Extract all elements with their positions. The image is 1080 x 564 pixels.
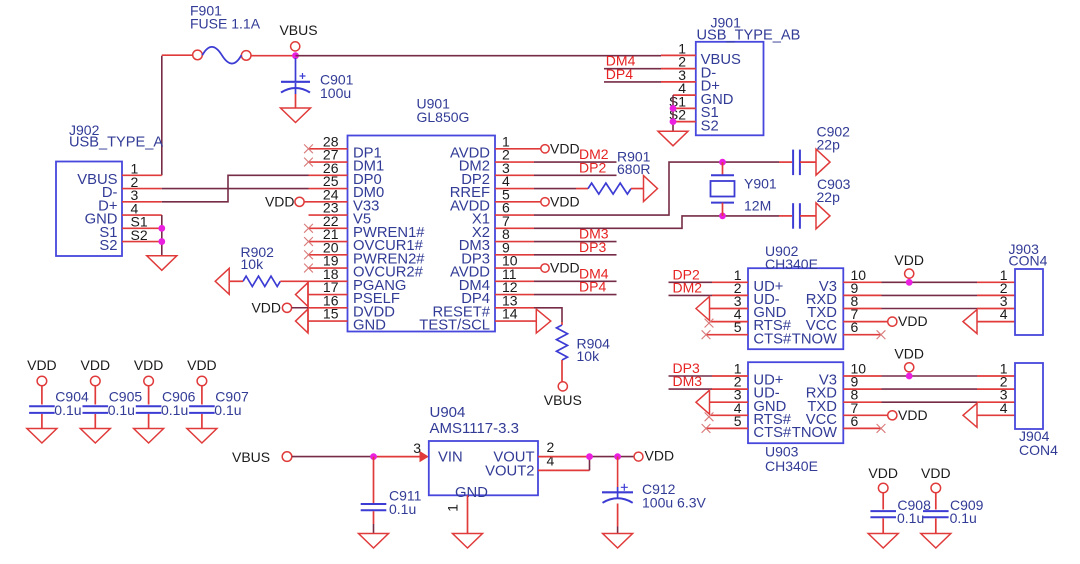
- svg-text:0.1u: 0.1u: [389, 501, 416, 517]
- fuse F901 right lead: [251, 55, 293, 57]
- svg-text:DP2: DP2: [579, 159, 606, 175]
- no-connect X on U902 pin 5: [702, 330, 711, 339]
- wire U904 VOUT stub: [538, 456, 590, 458]
- svg-text:VDD: VDD: [550, 260, 580, 276]
- svg-text:DM3: DM3: [673, 373, 703, 389]
- ground below C907: [187, 429, 217, 444]
- svg-text:TNOW: TNOW: [792, 331, 837, 347]
- wire RREF to R901: [534, 188, 576, 190]
- U903 pin 3 (GND) stub: [710, 401, 749, 403]
- wire VDD to pin16 bus: [292, 307, 309, 309]
- svg-text:15: 15: [323, 306, 339, 322]
- resistor R902: [243, 276, 280, 286]
- power port VDD at U903 pin 7 (VCC): [888, 411, 897, 420]
- wire net DM3 to U903 pin 2: [669, 388, 713, 390]
- no-connect X on U901 pin 27: [304, 158, 313, 167]
- J902 pin 3 (D+) stub: [122, 201, 162, 203]
- C905 top lead: [94, 386, 96, 405]
- ground arrow at J904 pin 4: [963, 403, 977, 427]
- svg-text:CTS#: CTS#: [753, 331, 792, 347]
- C907 top lead: [201, 386, 203, 405]
- no-connect X on U902 pin 4: [705, 319, 714, 328]
- J904 pin 2 stub: [977, 388, 1015, 390]
- wire net DM2 to U902 pin 2: [669, 294, 713, 296]
- J901 pin 2 (D-) stub: [661, 68, 696, 70]
- connector J902 box: [56, 162, 122, 257]
- svg-text:VBUS: VBUS: [232, 449, 270, 465]
- svg-text:VIN: VIN: [438, 450, 463, 466]
- wire net DM4 to J901 pin 2: [604, 68, 661, 70]
- U903 pin 10 (V3) stub: [843, 375, 881, 377]
- crystal Y901 bottom lead: [722, 203, 724, 216]
- ground below J901: [658, 131, 688, 146]
- U903 pin 9 (RXD) stub: [843, 388, 881, 390]
- wire vertical bus at U901 pins 18-15: [307, 281, 309, 331]
- svg-text:DP4: DP4: [606, 66, 633, 82]
- svg-text:VDD: VDD: [898, 313, 928, 329]
- svg-text:GND: GND: [455, 485, 488, 501]
- svg-text:4: 4: [547, 452, 555, 468]
- svg-text:CH340E: CH340E: [765, 256, 818, 272]
- power port VDD at U901 pin 5 (AVDD): [541, 198, 549, 206]
- ground below C911: [359, 534, 389, 549]
- capacitor C901 top lead: [295, 58, 297, 82]
- svg-text:VBUS: VBUS: [544, 392, 582, 408]
- wire U902 pin 10 to J903 pin 1: [882, 281, 978, 283]
- no-connect X on U901 pin 28: [304, 144, 313, 153]
- svg-text:22p: 22p: [817, 189, 841, 205]
- J903 pin 4 stub: [977, 321, 1015, 323]
- svg-text:VDD: VDD: [27, 357, 57, 373]
- svg-text:CON4: CON4: [1019, 442, 1058, 458]
- ground below C901: [281, 108, 311, 123]
- svg-text:VOUT2: VOUT2: [485, 464, 534, 480]
- wire C911 tap to U904 VIN: [374, 456, 420, 458]
- svg-text:VBUS: VBUS: [279, 22, 317, 38]
- power port VDD above C906: [144, 376, 154, 386]
- resistor R901: [588, 183, 631, 194]
- capacitor C912 top lead: [617, 457, 619, 487]
- capacitor C901 (polarized): [281, 73, 310, 94]
- U902 pin 7 (VCC) stub: [843, 321, 887, 323]
- svg-text:14: 14: [502, 306, 518, 322]
- junction VDD on U903 pin 10 wire: [906, 373, 913, 380]
- ground below U904: [453, 534, 483, 549]
- U902 pin 6 (TNOW) stub: [843, 334, 881, 336]
- R904 top lead: [561, 322, 563, 325]
- svg-text:12M: 12M: [744, 198, 771, 214]
- R901 right lead: [631, 188, 644, 190]
- wire U903 pin 8 to J904 pin 3: [882, 401, 978, 403]
- junction J902 S1: [158, 225, 165, 232]
- svg-text:CON4: CON4: [1009, 252, 1048, 268]
- svg-text:0.1u: 0.1u: [950, 510, 977, 526]
- power port VDD at U902 pin 7 (VCC): [888, 317, 897, 326]
- J901 pin S1 (S1) stub: [673, 107, 696, 109]
- svg-text:3: 3: [413, 440, 421, 456]
- C908 top lead: [882, 493, 884, 510]
- capacitor C911: [361, 504, 387, 510]
- U901 pin 12 (DP4) stub: [495, 294, 534, 296]
- U902 pin 1 (UD+) stub: [712, 281, 748, 283]
- J902 pin 1 (VBUS) stub: [122, 174, 162, 176]
- ground below C905: [80, 429, 110, 444]
- no-connect X on U903 pin 4: [705, 412, 714, 421]
- U901 pin 22 (PWREN1#) stub: [309, 227, 348, 229]
- U902 pin 8 (TXD) stub: [843, 308, 881, 310]
- C906 top lead: [148, 386, 150, 405]
- U903 pin 4 (RTS#) stub: [710, 414, 748, 416]
- wire RESET# to R904: [534, 308, 562, 322]
- U903 pin 7 (VCC) stub: [843, 414, 887, 416]
- ground arrow at U903 pin 3 (GND): [696, 390, 710, 414]
- J901 pin 4 (GND) stub: [673, 94, 696, 96]
- svg-text:10k: 10k: [577, 348, 601, 364]
- junction C911 tap: [370, 453, 377, 460]
- U901 pin 25 (DM0) stub: [309, 188, 348, 190]
- svg-text:TEST/SCL: TEST/SCL: [419, 318, 490, 334]
- U902 pin 3 (GND) stub: [710, 308, 749, 310]
- U901 pin 14 (TEST/SCL) stub: [495, 320, 536, 322]
- wire J901 GND/S1/S2 down: [672, 95, 674, 131]
- R902 right lead: [280, 280, 308, 282]
- wire X2 from U901 pin 7 to crystal: [534, 216, 779, 228]
- U901 pin 19 (OVCUR2#) stub: [309, 267, 348, 269]
- svg-text:0.1u: 0.1u: [161, 402, 188, 418]
- C904 top lead: [41, 386, 43, 405]
- power port VDD above U902 pin 10: [905, 269, 914, 278]
- U903 pin 5 (CTS#) stub: [706, 427, 748, 429]
- ground below C908: [868, 534, 898, 549]
- U901 pin 9 (DP3) stub: [495, 254, 534, 256]
- U903 pin 6 (TNOW) stub: [843, 427, 881, 429]
- C902 right lead: [800, 161, 816, 163]
- J903 pin 1 stub: [977, 281, 1015, 283]
- IC U903 box: [748, 362, 843, 443]
- J901 pin 1 (VBUS) stub: [661, 54, 696, 56]
- svg-text:6: 6: [851, 413, 859, 429]
- J903 pin 3 stub: [977, 308, 1015, 310]
- C903 right lead: [800, 215, 816, 217]
- R901 left lead: [576, 188, 588, 190]
- power port VBUS below R904: [558, 382, 567, 391]
- U901 pin 7 (X2) stub: [495, 227, 534, 229]
- wire X1 from U901 pin 6 to crystal: [534, 162, 779, 215]
- capacitor C902: [793, 150, 800, 176]
- ground arrow left of R902: [215, 268, 229, 294]
- svg-text:S2: S2: [99, 238, 117, 254]
- connector J904 box: [1015, 363, 1043, 429]
- svg-text:680R: 680R: [617, 161, 650, 177]
- U901 pin 4 (RREF) stub: [495, 188, 534, 190]
- svg-text:1: 1: [445, 504, 461, 512]
- svg-text:5: 5: [734, 413, 742, 429]
- svg-text:0.1u: 0.1u: [54, 402, 81, 418]
- IC U904 box: [429, 441, 538, 495]
- U902 pin 10 (V3) stub: [843, 281, 881, 283]
- svg-text:4: 4: [1000, 400, 1008, 416]
- power port VDD above U903 pin 10: [905, 363, 914, 372]
- wire net DP3 at U901: [534, 254, 617, 256]
- power port VDD above C904: [37, 376, 47, 386]
- wire net DP3 to U903 pin 1: [669, 375, 713, 377]
- svg-text:GL850G: GL850G: [417, 109, 470, 125]
- svg-text:CH340E: CH340E: [765, 458, 818, 474]
- IC U902 box: [748, 268, 843, 349]
- U903 pin 8 (TXD) stub: [843, 401, 881, 403]
- svg-text:100u 6.3V: 100u 6.3V: [642, 494, 706, 510]
- J901 pin S2 (S2) stub: [673, 121, 696, 123]
- svg-text:Y901: Y901: [744, 175, 777, 191]
- wire VBUS to C911 tap: [292, 456, 374, 458]
- wire net DP2 at U901: [534, 174, 617, 176]
- U901 pin 2 (DM2) stub: [495, 161, 534, 163]
- no-connect X on U903 pin 6: [877, 424, 886, 433]
- svg-text:VDD: VDD: [265, 193, 295, 209]
- svg-text:VDD: VDD: [251, 299, 281, 315]
- svg-text:FUSE 1.1A: FUSE 1.1A: [190, 16, 261, 32]
- U901 pin 11 (DM4) stub: [495, 280, 534, 282]
- svg-text:USB_TYPE_AB: USB_TYPE_AB: [697, 27, 801, 43]
- svg-text:VDD: VDD: [187, 357, 217, 373]
- junction X2 at crystal bottom: [719, 213, 726, 220]
- wire net DP2 to U902 pin 1: [669, 281, 713, 283]
- ground arrow at J903 pin 4: [963, 310, 977, 334]
- R904 bottom lead: [561, 360, 563, 382]
- svg-text:VDD: VDD: [894, 252, 924, 268]
- junction VOUT/VOUT2: [586, 453, 593, 460]
- junction J902 S2: [158, 238, 165, 245]
- U903 pin 1 (UD+) stub: [712, 375, 748, 377]
- wire VOUT to VDD port: [590, 456, 634, 458]
- capacitor C907: [189, 406, 215, 413]
- ground arrow right of C903: [816, 203, 830, 229]
- resistor R904: [557, 325, 568, 360]
- J902 pin 2 (D-) stub: [122, 188, 162, 190]
- C907 bottom lead: [201, 414, 203, 429]
- svg-text:VDD: VDD: [894, 346, 924, 362]
- wire VBUS rail to J901 pin 1: [296, 55, 662, 57]
- junction C912 tap: [614, 453, 621, 460]
- svg-text:VDD: VDD: [81, 357, 111, 373]
- svg-text:DM2: DM2: [673, 280, 703, 296]
- J904 pin 4 stub: [977, 414, 1015, 416]
- U904 GND pin 1 lead: [467, 495, 469, 533]
- svg-text:U904: U904: [430, 404, 466, 421]
- svg-text:VDD: VDD: [134, 357, 164, 373]
- connector J903 box: [1015, 269, 1043, 335]
- fuse F901: [193, 47, 251, 64]
- C909 bottom lead: [935, 518, 937, 533]
- J901 pin 3 (D+) stub: [661, 81, 696, 83]
- svg-text:S2: S2: [131, 227, 148, 243]
- power port VDD above C909: [931, 483, 941, 493]
- svg-text:VDD: VDD: [550, 193, 580, 209]
- C911 ground wire tail: [373, 524, 375, 534]
- wire net DP4 to J901 pin 3: [604, 81, 661, 83]
- U901 pin 16 (DVDD) stub: [308, 307, 348, 309]
- capacitor C912 (polarized): [602, 484, 633, 503]
- fuse F901 left lead: [162, 54, 193, 56]
- wire J902 D+ to U901 DP0 (jog): [162, 175, 309, 202]
- svg-text:GND: GND: [353, 318, 386, 334]
- svg-text:DP4: DP4: [579, 279, 606, 295]
- U901 pin 6 (X1) stub: [495, 214, 534, 216]
- wire net DM4 at U901: [534, 280, 617, 282]
- junction X1 at crystal top: [719, 159, 726, 166]
- no-connect X on U903 pin 5: [702, 424, 711, 433]
- C905 bottom lead: [94, 414, 96, 429]
- capacitor C903: [793, 203, 800, 229]
- ground below C904: [27, 429, 57, 444]
- wire U903 pin 9 to J904 pin 2: [882, 388, 978, 390]
- C909 top lead: [935, 493, 937, 510]
- svg-text:100u: 100u: [320, 85, 351, 101]
- U901 pin 23 (V5) stub: [309, 214, 348, 216]
- J904 pin 1 stub: [977, 375, 1015, 377]
- X2 red lead to C903: [779, 215, 792, 217]
- no-connect X on U901 pin 19: [304, 264, 313, 273]
- J902 pin S1 (S1) stub: [122, 227, 162, 229]
- no-connect X on U902 pin 6: [877, 330, 886, 339]
- svg-text:VDD: VDD: [645, 448, 675, 464]
- C912 bottom lead: [617, 504, 619, 527]
- C906 bottom lead: [148, 414, 150, 429]
- svg-text:0.1u: 0.1u: [108, 402, 135, 418]
- capacitor C909: [923, 511, 949, 517]
- junction VDD on U902 pin 10 wire: [906, 279, 913, 286]
- U901 pin 1 (AVDD) stub: [495, 148, 541, 150]
- capacitor C905: [83, 406, 109, 413]
- U902 pin 5 (CTS#) stub: [706, 334, 748, 336]
- X1 red lead to C902: [779, 161, 792, 163]
- crystal Y901 top lead: [722, 162, 724, 175]
- power port VBUS at regulator input: [282, 452, 292, 462]
- U901 pin 20 (PWREN2#) stub: [309, 254, 348, 256]
- U901 pin 17 (PSELF) stub: [308, 294, 348, 296]
- U902 pin 9 (RXD) stub: [843, 294, 881, 296]
- power port VDD at regulator output: [634, 452, 643, 461]
- U901 pin 3 (DP2) stub: [495, 174, 534, 176]
- U901 pin 15 (GND) stub: [308, 320, 348, 322]
- U901 pin 10 (AVDD) stub: [495, 267, 541, 269]
- svg-text:10k: 10k: [241, 256, 265, 272]
- ground below J902: [147, 256, 177, 270]
- svg-text:5: 5: [734, 319, 742, 335]
- svg-text:4: 4: [1000, 306, 1008, 322]
- wire net DP4 at U901: [534, 294, 617, 296]
- wire VOUT2 jog up: [589, 457, 591, 471]
- wire U902 pin 8 to J903 pin 3: [882, 308, 978, 310]
- wire J902 D- to U901 DM0: [162, 188, 309, 190]
- power port VDD at U901 pin 16 (DVDD): [282, 303, 291, 312]
- J903 pin 2 stub: [977, 294, 1015, 296]
- svg-text:0.1u: 0.1u: [214, 402, 241, 418]
- crystal Y901: [711, 175, 735, 202]
- ground below C909: [921, 534, 951, 549]
- ground arrow right of R901: [644, 176, 658, 202]
- U902 pin 4 (RTS#) stub: [710, 321, 748, 323]
- ground arrow at U902 pin 3 (GND): [696, 297, 710, 321]
- U903 pin 2 (UD-) stub: [712, 388, 748, 390]
- wire net DM2 at U901: [534, 161, 617, 163]
- svg-text:0.1u: 0.1u: [897, 510, 924, 526]
- J902 pin S2 (S2) stub: [122, 241, 162, 243]
- R902 left lead to arrow: [230, 280, 243, 282]
- J902 pin 4 (GND) stub: [122, 214, 162, 216]
- ground arrow at U901 pin 17 (PSELF): [296, 283, 309, 307]
- svg-text:DP3: DP3: [579, 239, 606, 255]
- U901 pin 27 (DM1) stub: [309, 161, 348, 163]
- J904 pin 3 stub: [977, 401, 1015, 403]
- U904 pin 3 input arrow: [420, 451, 429, 462]
- power port VDD above C908: [878, 483, 888, 493]
- no-connect X on U901 pin 21: [304, 237, 313, 246]
- power port VDD above C907: [197, 376, 207, 386]
- junction VBUS/C901: [292, 52, 299, 59]
- U901 pin 21 (OVCUR1#) stub: [309, 241, 348, 243]
- power port VDD at U901 pin 24 (V33): [295, 197, 304, 206]
- svg-text:AMS1117-3.3: AMS1117-3.3: [430, 420, 520, 437]
- svg-text:TNOW: TNOW: [792, 425, 837, 441]
- no-connect X on U901 pin 20: [304, 250, 313, 259]
- wire U904 VOUT2 stub: [538, 469, 590, 471]
- C912 ground wire tail: [617, 527, 619, 534]
- C911 bottom lead: [373, 511, 375, 524]
- no-connect X on U901 pin 22: [304, 224, 313, 233]
- wire net DM3 at U901: [534, 241, 617, 243]
- ground arrow at U901 pin 14 (TEST/SCL): [536, 309, 551, 333]
- svg-text:22p: 22p: [817, 136, 841, 152]
- U902 pin 2 (UD-) stub: [712, 294, 748, 296]
- ground below C906: [134, 429, 164, 444]
- wire VBUS from fuse corner down to J902 pin 1: [161, 56, 163, 176]
- ground arrow at U901 pin 15 (GND): [296, 309, 309, 333]
- U901 pin 5 (AVDD) stub: [495, 201, 541, 203]
- power port VBUS (top): [291, 42, 300, 51]
- junction J901 S2: [670, 118, 677, 125]
- U901 pin 13 (RESET#) stub: [495, 307, 534, 309]
- capacitor C904: [29, 406, 55, 413]
- wire U903 pin 10 to J904 pin 1: [882, 375, 978, 377]
- power port VDD at U901 pin 1 (AVDD): [541, 145, 549, 153]
- U901 pin 8 (DM3) stub: [495, 241, 534, 243]
- U901 pin 24 (V33) stub: [304, 201, 348, 203]
- power port VDD above C905: [91, 376, 101, 386]
- power port VDD at U901 pin 10 (AVDD): [541, 264, 549, 272]
- connector J901 box: [696, 42, 764, 136]
- U901 pin 28 (DP1) stub: [309, 148, 348, 150]
- C908 bottom lead: [882, 518, 884, 533]
- svg-text:VDD: VDD: [550, 140, 580, 156]
- svg-text:VDD: VDD: [868, 465, 898, 481]
- junction J901 S1: [670, 105, 677, 112]
- ground arrow right of C902: [816, 149, 830, 175]
- capacitor C906: [136, 406, 162, 413]
- capacitor C911 top lead: [373, 457, 375, 503]
- svg-text:S2: S2: [701, 118, 719, 134]
- wire J902 GND/S1/S2 down: [161, 215, 163, 256]
- svg-text:6: 6: [851, 319, 859, 335]
- U901 pin 26 (DP0) stub: [309, 174, 348, 176]
- svg-text:CTS#: CTS#: [753, 425, 792, 441]
- U901 pin 18 (PGANG) stub: [308, 280, 348, 282]
- svg-text:VDD: VDD: [898, 407, 928, 423]
- wire U902 pin 9 to J903 pin 2: [882, 294, 978, 296]
- IC U901 box: [348, 136, 496, 332]
- svg-text:USB_TYPE_A: USB_TYPE_A: [69, 135, 163, 151]
- C901 bottom lead: [295, 94, 297, 108]
